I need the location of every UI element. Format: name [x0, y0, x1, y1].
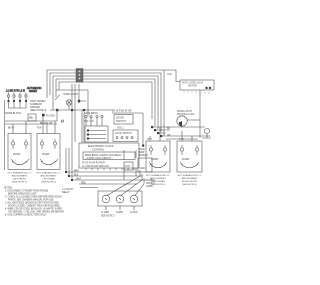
- svg-text:BRN: BRN: [74, 171, 79, 173]
- svg-text:2100W: 2100W: [13, 154, 21, 156]
- svg-text:AND ELEMENT: AND ELEMENT: [12, 175, 28, 178]
- svg-text:P1 P2 P3 P4 P5 P6 P7: P1 P2 P3 P4 P5 P6 P7: [82, 163, 106, 165]
- svg-text:(N.O.): (N.O.): [117, 127, 124, 130]
- svg-text:1500W: 1500W: [42, 154, 50, 156]
- svg-text:TERM BLOCK: TERM BLOCK: [5, 112, 22, 115]
- wire drops into left rear box: [42, 117, 44, 134]
- junction dot F: [142, 145, 144, 147]
- svg-text:BLK: BLK: [74, 175, 79, 177]
- svg-text:RELAY: RELAY: [62, 191, 70, 194]
- label wire colors right: [167, 128, 171, 137]
- wire diagonal to terminal L2: [135, 184, 144, 196]
- svg-text:BK: BK: [167, 128, 171, 130]
- controller electronic clock control: [79, 143, 139, 168]
- wire right column vertical: [142, 113, 144, 146]
- wire element right drops: [150, 127, 192, 141]
- wire left edge vertical: [4, 100, 6, 170]
- svg-text:RED: RED: [81, 183, 86, 185]
- svg-text:TEMP: TEMP: [138, 152, 145, 154]
- svg-text:R BK: R BK: [179, 139, 185, 141]
- relay contacts row: [84, 112, 103, 126]
- heating element left front: [8, 134, 31, 170]
- wire into terminal block left: [80, 187, 98, 189]
- svg-text:LOCK SWITCH: LOCK SWITCH: [115, 132, 132, 135]
- svg-text:CONTROL: CONTROL: [92, 149, 105, 152]
- svg-text:AND ELEMENT: AND ELEMENT: [41, 175, 57, 178]
- svg-text:4. WIRE COLOR CODE: BK BLACK,: 4. WIRE COLOR CODE: BK BLACK, W WHITE, R…: [5, 208, 63, 211]
- svg-text:DOOR LATCH: DOOR LATCH: [177, 110, 192, 113]
- svg-text:NOTES:: NOTES:: [4, 188, 13, 190]
- svg-text:HOT SURFACE IND. LT.: HOT SURFACE IND. LT.: [146, 174, 170, 177]
- svg-text:R W: R W: [37, 128, 42, 130]
- svg-text:HOT SURFACE IND. LT.: HOT SURFACE IND. LT.: [8, 172, 32, 175]
- junction dot B: [56, 109, 58, 111]
- wire bottom bus 2: [69, 175, 143, 177]
- svg-text:RIGHT FRONT: RIGHT FRONT: [182, 181, 198, 183]
- wire diagonal to terminal L1: [107, 176, 140, 196]
- svg-text:2100W: 2100W: [182, 159, 190, 161]
- svg-text:1. DISCONNECT POWER FROM RANGE: 1. DISCONNECT POWER FROM RANGE: [5, 190, 49, 193]
- terminal block power L1 N L2: [98, 191, 142, 210]
- wire top bus line 1: [47, 70, 164, 136]
- lamp oven light: [66, 100, 72, 106]
- svg-text:HOT SURFACE IND. LT.: HOT SURFACE IND. LT.: [178, 174, 202, 177]
- label right front unit: [178, 174, 202, 186]
- terminal small Y: [61, 120, 63, 122]
- fuse F1 (small box on left bus): [28, 114, 36, 121]
- sensor RT1 box: [138, 158, 152, 172]
- svg-text:L1 BK N W L2 R: L1 BK N W L2 R: [6, 89, 25, 93]
- svg-text:(SEE NOTE 5): (SEE NOTE 5): [12, 182, 27, 184]
- fuse thermal box: [124, 162, 133, 170]
- junction dot C: [42, 114, 45, 117]
- capacitor C1 (small right component): [202, 128, 211, 138]
- svg-text:AND ELEMENT: AND ELEMENT: [182, 177, 198, 180]
- wire bottom bus 1: [66, 171, 140, 173]
- relay board box (above clock): [85, 126, 108, 142]
- svg-text:LEFT REAR: LEFT REAR: [43, 178, 55, 181]
- wire stub to spark module 2: [167, 73, 172, 75]
- svg-text:Y: Y: [61, 123, 63, 125]
- svg-text:1100: 1100: [140, 168, 146, 170]
- svg-text:BK W R OR: BK W R OR: [40, 123, 53, 125]
- heating element right front: [177, 141, 202, 172]
- svg-text:DOOR CLOSED. CABINET GROUND RE: DOOR CLOSED. CABINET GROUND REQUIRED.: [8, 205, 61, 208]
- spark module box U2: [180, 80, 214, 90]
- notes text block: [4, 188, 65, 217]
- label wire names bottom bus: [74, 171, 86, 185]
- wire bottom bus 3: [72, 179, 146, 181]
- pin ticks under spark module: [184, 91, 209, 94]
- svg-text:OVEN: OVEN: [138, 149, 145, 151]
- wire horizontal y90: [56, 89, 88, 91]
- wire diagonal to terminal N: [121, 180, 142, 196]
- svg-text:SWITCH: SWITCH: [188, 86, 197, 88]
- wire bottom bus 4: [79, 183, 137, 185]
- svg-text:OR ORANGE, Y YELLOW, GRN GREEN: OR ORANGE, Y YELLOW, GRN GREEN, BR BROWN…: [8, 211, 65, 214]
- wire sensor drops: [124, 150, 136, 180]
- svg-text:L2 BLK: L2 BLK: [130, 212, 138, 214]
- wire top bus line 2: [50, 73, 161, 132]
- svg-text:DBL: DBL: [29, 118, 34, 120]
- wire risers to diagonals: [140, 170, 144, 184]
- svg-text:BK W R BK W OR: BK W R BK W OR: [112, 110, 132, 113]
- motor door latch: [177, 116, 200, 126]
- svg-text:BK W: BK W: [8, 128, 15, 130]
- svg-text:2. CHECK ALL CONNECTIONS BEFOR: 2. CHECK ALL CONNECTIONS BEFORE REPLACIN…: [5, 196, 62, 199]
- label current limiter block: [30, 100, 47, 112]
- wire top bus line 3: [53, 76, 158, 129]
- wire left bus horizontal 1: [5, 120, 57, 122]
- wire horizontal y110: [50, 109, 112, 111]
- wire stub to spark module: [164, 70, 180, 82]
- sensor text label: [138, 149, 148, 157]
- wire drop to LF element 2: [25, 121, 27, 134]
- svg-text:OR: OR: [167, 135, 171, 137]
- svg-text:N WHT: N WHT: [116, 212, 124, 214]
- svg-text:BAKE BROIL CLEAN LOCK DELAY: BAKE BROIL CLEAN LOCK DELAY: [85, 154, 122, 157]
- heating element right rear: [146, 141, 170, 172]
- svg-text:SENSOR: SENSOR: [138, 155, 148, 157]
- wire left bus horizontal 2: [5, 123, 57, 125]
- svg-text:WHT: WHT: [76, 179, 82, 181]
- switch light switch: [55, 95, 60, 101]
- label power cord: [146, 180, 155, 188]
- heating element left rear: [37, 134, 60, 170]
- wire connector drop: [78, 84, 80, 101]
- svg-text:-- DOOR LOCK CIRCUIT --: -- DOOR LOCK CIRCUIT --: [85, 158, 113, 160]
- wire middle vertical 2: [74, 84, 76, 142]
- wire drop to LR element: [46, 124, 48, 134]
- label left rear unit: [37, 172, 61, 184]
- svg-text:PARTS. SEE OWNERS MANUAL FOR U: PARTS. SEE OWNERS MANUAL FOR USE.: [8, 199, 54, 202]
- label latch motor: [177, 110, 195, 116]
- svg-text:3. ALL SWITCHES SHOWN IN OFF P: 3. ALL SWITCHES SHOWN IN OFF POSITION AN…: [5, 202, 59, 205]
- svg-text:OVEN LIGHT: OVEN LIGHT: [63, 93, 79, 96]
- svg-text:5. USE COPPER CONDUCTORS ONLY.: 5. USE COPPER CONDUCTORS ONLY.: [5, 215, 47, 217]
- wire middle vertical to clock area: [71, 84, 73, 148]
- svg-text:N.O. N.O.: N.O. N.O.: [84, 120, 95, 123]
- junction dot E: [83, 109, 85, 111]
- svg-text:SEE NOTE 3: SEE NOTE 3: [101, 216, 115, 218]
- wire horizontal y113: [112, 112, 143, 114]
- switch lock switch box: [113, 130, 138, 142]
- svg-text:CORD: CORD: [146, 186, 153, 188]
- junction corner dots bottom bus: [65, 171, 73, 181]
- wire middle vertical 3: [81, 110, 83, 143]
- label left front unit: [8, 172, 32, 184]
- svg-text:RESET: RESET: [29, 90, 38, 93]
- svg-text:HOT SURFACE IND. LT.: HOT SURFACE IND. LT.: [37, 172, 61, 175]
- wire latch right vertical: [199, 90, 201, 138]
- svg-text:P2 GRN: P2 GRN: [46, 116, 55, 118]
- wire latch bottom: [166, 138, 198, 140]
- pin ticks clock box bottom: [86, 168, 134, 170]
- wire middle vertical 4: [83, 113, 85, 143]
- wire top bus line 4: [56, 79, 155, 126]
- svg-text:SWITCH: SWITCH: [116, 120, 126, 123]
- wire clock left drops: [66, 148, 72, 180]
- wire right horizontals to elements: [152, 127, 210, 136]
- svg-text:BEFORE SERVICING UNIT.: BEFORE SERVICING UNIT.: [8, 194, 37, 196]
- connector P1 (shaded plug on bus): [76, 69, 83, 83]
- svg-text:L1 COM N DLB GRD CAV: L1 COM N DLB GRD CAV: [82, 165, 109, 168]
- wire lamp branch: [87, 90, 89, 116]
- junction dots right bundle: [151, 126, 162, 137]
- svg-text:POWER: POWER: [146, 180, 155, 182]
- svg-text:BK R: BK R: [147, 139, 153, 141]
- switch door switch box: [114, 115, 133, 125]
- svg-text:(SEE NOTE 5): (SEE NOTE 5): [41, 182, 56, 184]
- wire top bus line 5: [59, 82, 152, 119]
- wire drop to LR element 2: [54, 121, 56, 134]
- svg-text:1500W: 1500W: [151, 159, 159, 161]
- svg-text:BAKE BROIL: BAKE BROIL: [84, 112, 99, 115]
- svg-text:L1 RED: L1 RED: [101, 212, 109, 214]
- svg-text:(SEE NOTE 4): (SEE NOTE 4): [30, 109, 47, 112]
- svg-text:SUPPLY: SUPPLY: [146, 183, 155, 185]
- wire lamp down: [57, 101, 86, 121]
- svg-text:AUTO LATCH LOCK: AUTO LATCH LOCK: [182, 81, 204, 84]
- svg-text:MOTOR & LOCK: MOTOR & LOCK: [177, 114, 195, 116]
- svg-text:LEFT FRONT: LEFT FRONT: [13, 179, 27, 181]
- junction dot A: [78, 100, 80, 103]
- terminal block TB (L1 N L2 with limiters): [6, 89, 27, 109]
- wire drop to LF element: [12, 124, 14, 134]
- svg-text:TCO: TCO: [125, 166, 130, 168]
- junction dot D: [71, 109, 73, 111]
- label right rear unit: [146, 174, 170, 186]
- svg-text:(SEE NOTE 5): (SEE NOTE 5): [182, 184, 197, 186]
